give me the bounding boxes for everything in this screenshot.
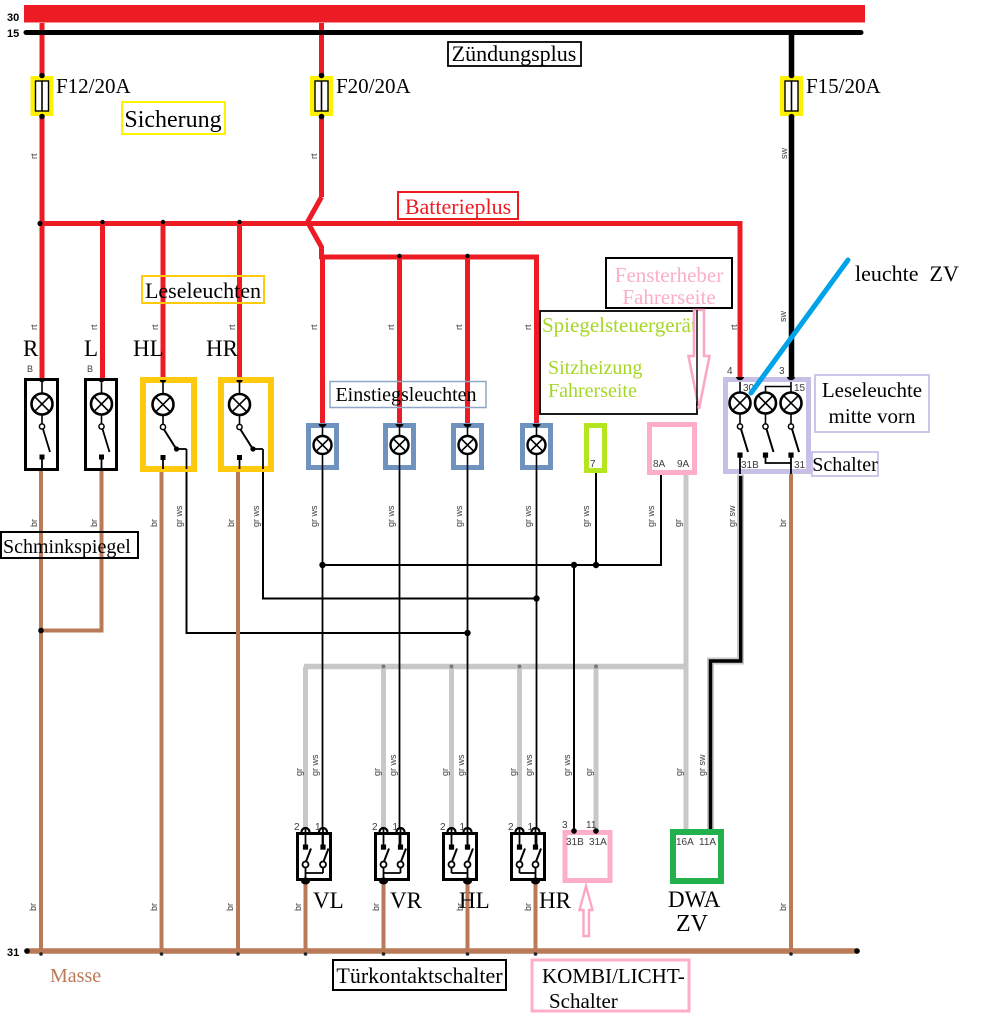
svg-text:rt: rt xyxy=(89,324,99,330)
svg-text:Leseleuchten: Leseleuchten xyxy=(145,278,261,303)
svg-text:31B: 31B xyxy=(566,837,584,848)
svg-text:gr ws: gr ws xyxy=(581,505,591,527)
svg-text:gr sw: gr sw xyxy=(727,505,737,527)
svg-text:Fensterheber: Fensterheber xyxy=(615,263,723,287)
svg-text:gr ws: gr ws xyxy=(310,754,320,776)
svg-text:Fahrerseite: Fahrerseite xyxy=(548,380,637,402)
svg-text:gr ws: gr ws xyxy=(251,505,261,527)
svg-text:gr ws: gr ws xyxy=(388,754,398,776)
svg-text:br: br xyxy=(29,519,39,527)
svg-text:3: 3 xyxy=(562,820,568,831)
svg-text:gr: gr xyxy=(673,519,683,527)
svg-text:16A: 16A xyxy=(676,837,694,848)
svg-text:br: br xyxy=(149,519,159,527)
svg-text:gr: gr xyxy=(372,768,382,776)
svg-text:Spiegelsteuergerät: Spiegelsteuergerät xyxy=(542,313,697,337)
svg-text:Einstiegsleuchten: Einstiegsleuchten xyxy=(335,384,476,406)
svg-text:Schminkspiegel: Schminkspiegel xyxy=(3,536,131,558)
svg-text:br: br xyxy=(455,903,465,911)
svg-text:gr: gr xyxy=(508,768,518,776)
svg-text:gr ws: gr ws xyxy=(309,505,319,527)
svg-text:2: 2 xyxy=(508,822,514,833)
svg-text:gr ws: gr ws xyxy=(562,754,572,776)
svg-text:gr ws: gr ws xyxy=(386,505,396,527)
svg-text:4: 4 xyxy=(727,366,733,377)
svg-text:gr sw: gr sw xyxy=(697,754,707,776)
svg-text:rt: rt xyxy=(227,324,237,330)
svg-text:15: 15 xyxy=(794,383,806,394)
svg-text:gr ws: gr ws xyxy=(523,505,533,527)
svg-text:3: 3 xyxy=(779,366,785,377)
svg-text:rt: rt xyxy=(386,324,396,330)
svg-text:Leseleuchte: Leseleuchte xyxy=(822,378,922,402)
svg-text:br: br xyxy=(89,519,99,527)
svg-text:1: 1 xyxy=(528,822,534,833)
svg-text:gr ws: gr ws xyxy=(456,754,466,776)
svg-text:br: br xyxy=(149,903,159,911)
svg-text:br: br xyxy=(28,903,38,911)
svg-text:gr ws: gr ws xyxy=(646,505,656,527)
svg-text:VR: VR xyxy=(390,888,423,913)
svg-text:KOMBI/LICHT-: KOMBI/LICHT- xyxy=(542,964,685,988)
svg-text:br: br xyxy=(523,903,533,911)
svg-text:HR: HR xyxy=(539,888,572,913)
svg-text:31A: 31A xyxy=(589,837,607,848)
svg-text:Zündungsplus: Zündungsplus xyxy=(452,41,577,66)
svg-text:1: 1 xyxy=(460,822,466,833)
svg-text:1: 1 xyxy=(393,822,399,833)
svg-text:Batterieplus: Batterieplus xyxy=(405,194,511,219)
svg-text:F15/20A: F15/20A xyxy=(806,74,882,98)
svg-text:DWA: DWA xyxy=(668,887,721,912)
svg-text:7: 7 xyxy=(590,459,596,470)
svg-text:rt: rt xyxy=(309,324,319,330)
svg-text:L: L xyxy=(84,336,98,361)
svg-text:rt: rt xyxy=(523,324,533,330)
svg-text:F20/20A: F20/20A xyxy=(336,74,412,98)
svg-text:Fahrerseite: Fahrerseite xyxy=(622,285,715,309)
svg-text:31: 31 xyxy=(7,947,19,959)
svg-text:gr: gr xyxy=(440,768,450,776)
svg-text:gr ws: gr ws xyxy=(524,754,534,776)
svg-text:gr: gr xyxy=(674,768,684,776)
svg-text:rt: rt xyxy=(729,324,739,330)
svg-text:Sitzheizung: Sitzheizung xyxy=(548,357,642,379)
svg-text:gr: gr xyxy=(584,768,594,776)
svg-text:2: 2 xyxy=(294,822,300,833)
svg-text:R: R xyxy=(23,336,39,361)
svg-text:30: 30 xyxy=(7,12,19,24)
svg-text:Schalter: Schalter xyxy=(549,989,618,1013)
svg-text:br: br xyxy=(778,903,788,911)
svg-text:31: 31 xyxy=(794,460,806,471)
svg-text:HL: HL xyxy=(133,336,164,361)
svg-text:15: 15 xyxy=(7,28,19,40)
svg-text:br: br xyxy=(778,519,788,527)
svg-text:ZV: ZV xyxy=(676,911,709,937)
svg-text:31B: 31B xyxy=(741,460,759,471)
svg-text:8A: 8A xyxy=(653,459,666,470)
svg-text:rt: rt xyxy=(29,324,39,330)
svg-text:1: 1 xyxy=(315,822,321,833)
svg-text:sw: sw xyxy=(779,148,789,160)
svg-text:B: B xyxy=(27,364,33,374)
svg-text:rt: rt xyxy=(29,153,39,159)
svg-text:Sicherung: Sicherung xyxy=(124,107,221,133)
svg-text:9A: 9A xyxy=(677,459,690,470)
svg-text:gr ws: gr ws xyxy=(454,505,464,527)
svg-text:Masse: Masse xyxy=(50,965,101,987)
svg-text:2: 2 xyxy=(440,822,446,833)
svg-text:gr: gr xyxy=(294,768,304,776)
svg-text:br: br xyxy=(226,519,236,527)
svg-text:11A: 11A xyxy=(699,837,716,848)
svg-text:leuchte ZV: leuchte ZV xyxy=(855,261,959,286)
svg-text:br: br xyxy=(371,903,381,911)
svg-text:Schalter: Schalter xyxy=(812,454,878,476)
svg-text:rt: rt xyxy=(309,153,319,159)
svg-text:F12/20A: F12/20A xyxy=(56,74,132,98)
svg-text:B: B xyxy=(87,364,93,374)
svg-text:2: 2 xyxy=(372,822,378,833)
svg-text:br: br xyxy=(293,903,303,911)
svg-text:Türkontaktschalter: Türkontaktschalter xyxy=(336,963,503,988)
svg-text:rt: rt xyxy=(150,324,160,330)
svg-text:mitte vorn: mitte vorn xyxy=(829,404,916,428)
svg-text:gr ws: gr ws xyxy=(174,505,184,527)
svg-text:br: br xyxy=(225,903,235,911)
svg-text:VL: VL xyxy=(313,888,344,913)
svg-text:rt: rt xyxy=(454,324,464,330)
svg-text:sw: sw xyxy=(778,311,788,323)
svg-text:HR: HR xyxy=(206,336,239,361)
